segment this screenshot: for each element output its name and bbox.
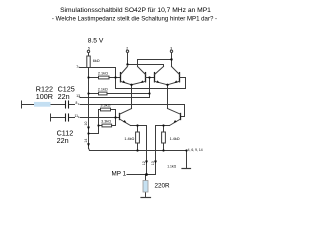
svg-text:5: 5 [88,47,90,51]
svg-text:2.1kΩ: 2.1kΩ [98,72,108,76]
svg-text:1.4kΩ: 1.4kΩ [170,137,180,141]
svg-text:13: 13 [151,161,155,165]
svg-text:22n: 22n [57,136,69,145]
svg-text:2.1kΩ: 2.1kΩ [98,87,108,91]
svg-text:Simulationsschaltbild SO42P fü: Simulationsschaltbild SO42P für 10,7 MHz… [60,7,211,14]
svg-text:8.5 V: 8.5 V [88,37,104,44]
svg-text:11: 11 [75,114,79,118]
svg-text:- Welche Lastimpedanz stellt d: - Welche Lastimpedanz stellt die Schaltu… [52,16,217,23]
svg-text:3.3kΩ: 3.3kΩ [100,104,110,108]
svg-text:3: 3 [170,46,172,50]
svg-text:6kΩ: 6kΩ [93,59,100,63]
svg-text:10: 10 [84,122,88,126]
svg-text:220R: 220R [155,182,171,189]
svg-text:MP 1: MP 1 [112,170,127,177]
svg-text:3.3kΩ: 3.3kΩ [101,119,111,123]
svg-text:7: 7 [76,65,78,69]
svg-text:22n: 22n [58,92,70,101]
svg-text:14: 14 [84,139,88,143]
svg-text:2: 2 [126,46,128,50]
svg-text:100R: 100R [36,92,53,101]
svg-text:1.4kΩ: 1.4kΩ [124,137,134,141]
svg-text:1.1kΩ: 1.1kΩ [167,164,176,168]
svg-text:8: 8 [76,101,78,105]
svg-text:4, 6, 9, 14: 4, 6, 9, 14 [188,148,203,152]
